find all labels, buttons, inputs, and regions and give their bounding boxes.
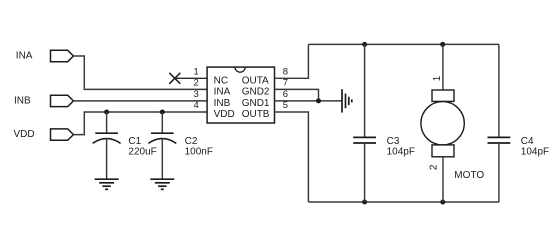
connector INA	[16, 50, 74, 61]
IC U1 body	[207, 67, 274, 123]
wire INA to pin 2	[73, 56, 207, 89]
node bottom rail motor	[440, 200, 445, 205]
node top rail C3	[362, 42, 367, 47]
ground under C1	[95, 179, 119, 189]
node bottom rail C3	[362, 200, 367, 205]
capacitor C2 100nF	[148, 112, 213, 179]
svg-text:C2: C2	[185, 136, 198, 147]
svg-text:C3: C3	[387, 136, 400, 147]
wire pin 8 to top rail	[275, 44, 309, 78]
svg-text:4: 4	[194, 100, 199, 111]
svg-text:OUTA: OUTA	[242, 75, 269, 86]
svg-text:100nF: 100nF	[185, 146, 213, 157]
connector INB	[14, 95, 73, 106]
wire pin 1	[175, 77, 207, 79]
svg-text:INA: INA	[214, 87, 231, 98]
svg-text:7: 7	[283, 78, 288, 89]
svg-text:GND1: GND1	[242, 98, 270, 109]
svg-text:8: 8	[283, 67, 288, 78]
wire pin 7 down to pin 6	[275, 89, 319, 101]
wire INB to pin 3	[73, 100, 207, 102]
node junction C1/VDD rail	[104, 110, 109, 115]
svg-text:GND2: GND2	[242, 87, 270, 98]
capacitor C4 104pF	[488, 44, 550, 202]
node top rail motor	[440, 42, 445, 47]
capacitor C3 104pF	[353, 44, 415, 202]
svg-text:INB: INB	[214, 98, 231, 109]
no-connect X on pin 1	[169, 73, 180, 84]
ground at pins 6/7	[342, 89, 352, 112]
wire VDD to rail and pin 4	[73, 112, 207, 135]
svg-text:NC: NC	[214, 75, 228, 86]
svg-text:1: 1	[194, 67, 199, 78]
motor MOTO	[421, 44, 484, 202]
svg-text:2: 2	[429, 164, 440, 170]
connector VDD	[14, 129, 74, 140]
svg-text:5: 5	[283, 100, 288, 111]
svg-text:1: 1	[432, 75, 443, 81]
svg-text:MOTO: MOTO	[454, 170, 484, 181]
svg-text:220uF: 220uF	[128, 146, 156, 157]
svg-text:C1: C1	[128, 136, 141, 147]
wire top rail	[308, 43, 499, 45]
wire bottom rail	[308, 201, 499, 203]
svg-text:6: 6	[283, 89, 288, 100]
ground under C2	[150, 179, 174, 189]
svg-text:104pF: 104pF	[521, 146, 549, 157]
wire pin 6 to ground	[275, 100, 343, 102]
wire pin 5 to bottom rail	[275, 112, 309, 202]
svg-text:INB: INB	[14, 95, 31, 106]
svg-text:3: 3	[194, 89, 199, 100]
svg-text:2: 2	[194, 78, 199, 89]
svg-text:VDD: VDD	[214, 109, 235, 120]
svg-text:INA: INA	[16, 51, 33, 62]
node junction C2/VDD rail	[160, 110, 165, 115]
capacitor C1 220uF	[93, 112, 157, 179]
svg-text:104pF: 104pF	[387, 146, 415, 157]
node junction pins 6/7	[316, 98, 321, 103]
svg-text:OUTB: OUTB	[242, 109, 270, 120]
svg-text:C4: C4	[521, 136, 534, 147]
svg-text:VDD: VDD	[14, 129, 35, 140]
